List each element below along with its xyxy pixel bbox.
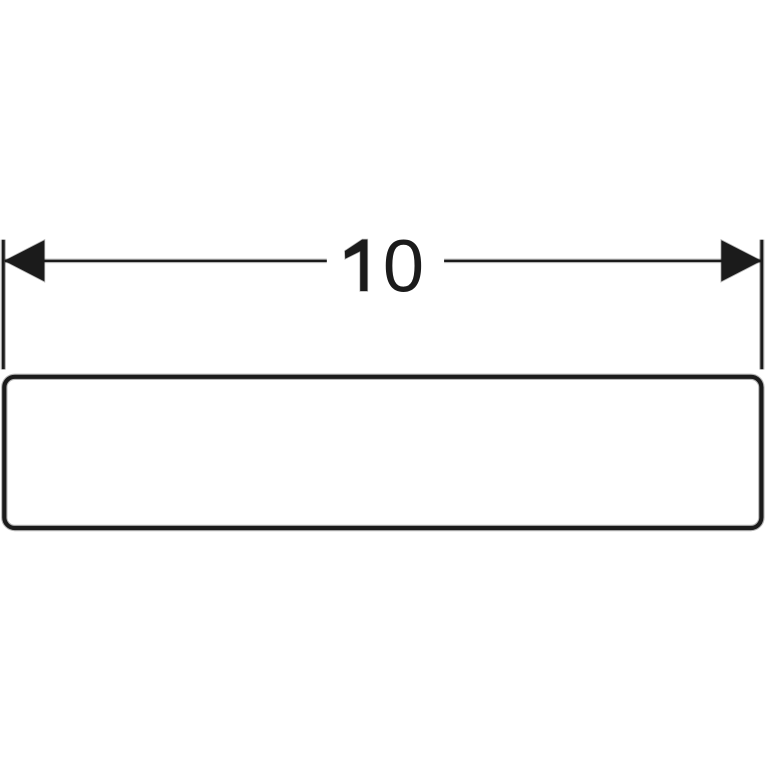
dimension label digit 1 bbox=[345, 240, 368, 292]
extension line right bbox=[759, 240, 764, 370]
extension line left bbox=[1, 240, 6, 370]
arrowhead left bbox=[4, 240, 44, 281]
dimension line left segment bbox=[5, 259, 327, 264]
arrowhead right bbox=[721, 240, 761, 281]
dimension line right segment bbox=[444, 259, 761, 264]
rounded rectangle profile bbox=[4, 377, 761, 528]
svg-text:0: 0 bbox=[383, 224, 424, 307]
